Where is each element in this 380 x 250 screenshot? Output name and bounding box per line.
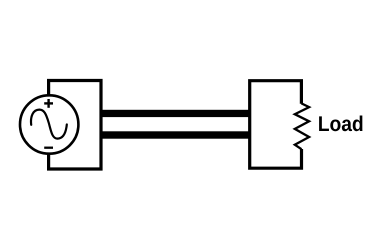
wire source loop xyxy=(49,81,101,170)
wire thick bottom conductor xyxy=(100,131,252,138)
wire load loop xyxy=(250,81,302,169)
sine wave xyxy=(31,110,67,139)
resistor zigzag xyxy=(295,103,309,149)
source V1 circle xyxy=(20,95,78,153)
wire thick top conductor xyxy=(100,110,252,117)
label Load xyxy=(319,116,362,132)
minus sign xyxy=(44,147,53,149)
plus sign xyxy=(44,99,53,108)
